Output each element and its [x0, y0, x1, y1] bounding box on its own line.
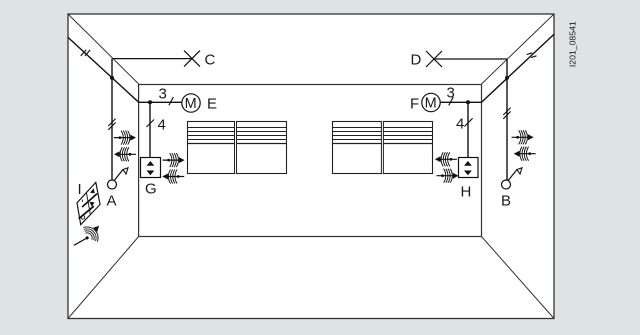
svg-text:C: C	[205, 52, 216, 69]
room outer frame	[68, 14, 554, 319]
wire 3 left to motor E	[139, 101, 182, 103]
room edge bottom-right	[482, 237, 555, 319]
room edge bottom-left	[68, 237, 139, 319]
cable slash marks right diagonal	[527, 53, 537, 58]
svg-text:I: I	[78, 181, 82, 198]
svg-text:F: F	[410, 96, 419, 113]
junction dot B-wire	[505, 76, 509, 80]
svg-text:I201_08541: I201_08541	[568, 21, 578, 67]
wire drop to switch B	[506, 59, 508, 180]
actuator G	[141, 158, 161, 178]
junction dot A-wire	[110, 76, 114, 80]
svg-text:M: M	[425, 96, 437, 112]
motor F (M circle)	[422, 93, 440, 111]
back wall	[139, 85, 482, 237]
IR signal arrows at switch A	[114, 131, 136, 145]
wire 3 right to motor F	[440, 101, 482, 103]
svg-text:E: E	[207, 96, 217, 113]
actuator H	[459, 158, 479, 178]
IR signal arrows at actuator H	[435, 152, 457, 166]
wire 4 left to actuator G	[149, 102, 151, 157]
switch A	[108, 168, 129, 189]
junction dot wire3 left	[148, 100, 152, 104]
IR signal arrows at switch B	[512, 130, 534, 144]
cable slash marks wire A	[108, 119, 115, 130]
wire ceiling line to lamp D	[434, 58, 507, 60]
room edge top-left	[68, 14, 139, 84]
lamp C	[184, 51, 200, 67]
slash wire3 left	[169, 97, 174, 105]
wire 4 right to actuator H	[467, 102, 469, 157]
IR signal arrows at actuator G	[163, 153, 185, 167]
slash wire4 left	[147, 120, 155, 128]
cable slash marks left diagonal	[81, 50, 90, 56]
IR beam from remote I	[74, 238, 87, 245]
svg-text:G: G	[145, 181, 157, 198]
svg-text:A: A	[107, 193, 117, 210]
wire ceiling line to lamp C	[113, 58, 192, 60]
lamp D	[426, 51, 442, 67]
svg-text:3: 3	[159, 86, 167, 103]
remote control I	[77, 182, 100, 224]
svg-text:H: H	[461, 184, 472, 201]
svg-text:D: D	[411, 52, 422, 69]
wire diagonal left (ceiling corner run)	[68, 37, 139, 102]
cable slash marks wire B	[503, 108, 510, 119]
window left	[187, 121, 287, 174]
svg-text:3: 3	[447, 85, 455, 102]
wire diagonal right (ceiling corner run)	[482, 34, 555, 102]
svg-text:4: 4	[158, 116, 166, 133]
slash wire3 right	[449, 97, 454, 105]
wire drop to switch A	[111, 59, 113, 180]
svg-text:M: M	[185, 96, 197, 112]
motor E (M circle)	[182, 94, 200, 112]
switch B	[502, 168, 523, 189]
svg-text:4: 4	[456, 115, 464, 132]
window right	[333, 121, 433, 174]
room edge top-right	[482, 14, 555, 84]
svg-text:B: B	[501, 193, 511, 210]
slash wire4 right	[464, 118, 472, 126]
junction dot wire3 right	[466, 100, 470, 104]
